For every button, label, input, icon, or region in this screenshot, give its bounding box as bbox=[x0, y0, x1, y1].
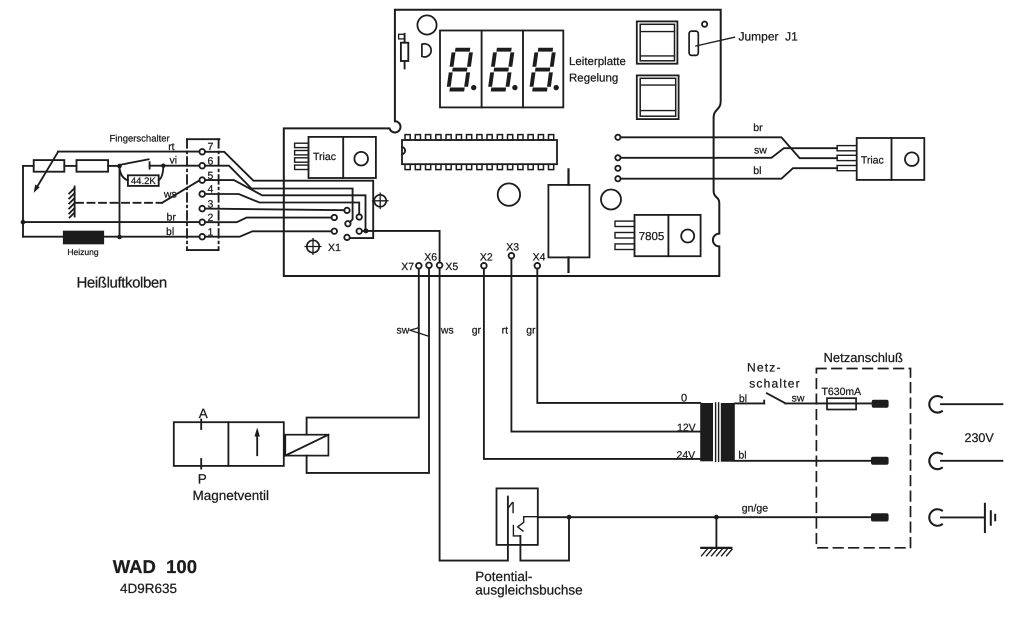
svg-text:gn/ge: gn/ge bbox=[742, 502, 768, 514]
solder pad D bbox=[345, 221, 350, 226]
triac U1 divider bbox=[342, 137, 344, 178]
svg-text:2: 2 bbox=[207, 212, 213, 224]
node vi junction dot bbox=[161, 164, 165, 168]
wire pin 4 to PCB pad C bbox=[205, 194, 359, 214]
svg-text:bl: bl bbox=[739, 393, 747, 405]
triac Q2 lead 1 bbox=[837, 146, 857, 151]
mounting hole top left bbox=[417, 15, 436, 34]
svg-text:7: 7 bbox=[207, 141, 213, 153]
mounting pad crosshair X1 bbox=[305, 239, 321, 255]
svg-text:X7: X7 bbox=[401, 261, 414, 273]
svg-text:Netzanschluß: Netzanschluß bbox=[824, 350, 904, 365]
connector housing bottom edge bbox=[187, 249, 218, 251]
adjustment arrow through sensor bbox=[34, 152, 58, 193]
regulator 7805 mounting hole bbox=[681, 230, 694, 243]
pin X2 bbox=[481, 263, 487, 269]
pin X5 bbox=[437, 263, 443, 269]
connector housing top edge bbox=[187, 138, 219, 140]
wire X5 ws to equipotential socket pin bbox=[440, 268, 508, 560]
wire heater to pin 1 bbox=[103, 236, 199, 238]
svg-text:X4: X4 bbox=[533, 252, 546, 264]
wire node A down to bl line bbox=[119, 166, 121, 237]
PCB Leiterplatte outline bbox=[284, 10, 721, 276]
wire X4 gr to transformer 0 tap bbox=[537, 269, 700, 403]
capacitor C1 body bbox=[548, 185, 589, 258]
regulator 7805 lead 2 bbox=[615, 233, 635, 239]
svg-text:T630mA: T630mA bbox=[822, 386, 862, 398]
wire pin 3 to PCB pad A bbox=[205, 209, 344, 211]
display digit 1 decimal point bbox=[471, 85, 476, 90]
wire rt from sensor to pin 7 bbox=[58, 151, 200, 153]
edge pad sw bbox=[615, 155, 620, 160]
wire pin 5 to solder node bbox=[205, 180, 366, 231]
switch fixed contact bbox=[149, 162, 151, 168]
wire solder node to X5 bbox=[366, 231, 440, 263]
wire gn/ge bbox=[538, 516, 871, 518]
pin X7 bbox=[416, 263, 422, 269]
svg-text:7805: 7805 bbox=[639, 231, 665, 243]
transformer T1 primary winding bbox=[700, 403, 713, 461]
svg-text:sw: sw bbox=[397, 325, 410, 337]
svg-text:gr: gr bbox=[526, 325, 536, 337]
svg-text:bl: bl bbox=[753, 165, 761, 177]
connector pin 5 bbox=[199, 177, 205, 183]
wire sw from pad to triac lead 1 bbox=[621, 148, 838, 158]
display cell dividers bbox=[482, 31, 523, 108]
relay K2 bbox=[637, 75, 679, 119]
svg-text:br: br bbox=[167, 212, 177, 224]
connector pin 1 bbox=[199, 234, 205, 240]
resistor 44.2K body bbox=[128, 175, 159, 186]
svg-text:6: 6 bbox=[207, 155, 213, 167]
wire box2 to node A bbox=[108, 165, 119, 167]
svg-text:bl: bl bbox=[738, 450, 746, 462]
svg-text:230V: 230V bbox=[965, 431, 995, 445]
socket pin hook bbox=[508, 503, 513, 513]
valve port A tick bbox=[200, 420, 202, 430]
wire socket sleeve loop to gn/ge bbox=[520, 517, 569, 560]
valve port P tick bbox=[200, 459, 202, 469]
svg-text:Heißluftkolben: Heißluftkolben bbox=[77, 275, 167, 292]
junction dot gn/ge to earth bbox=[714, 515, 719, 520]
resistor 44.2K right lead bbox=[159, 168, 164, 181]
relay K1 bbox=[637, 21, 678, 63]
wire plug 3 bbox=[941, 516, 983, 518]
pin X6 bbox=[426, 263, 432, 269]
svg-text:ausgleichsbuchse: ausgleichsbuchse bbox=[475, 582, 582, 597]
svg-text:rt: rt bbox=[502, 325, 508, 337]
mounting pad crosshair upper bbox=[373, 193, 388, 208]
svg-text:Netz-: Netz- bbox=[747, 360, 782, 374]
wire pin 6 to PCB pad D bbox=[205, 166, 353, 223]
wire br to pin 2 bbox=[23, 221, 199, 223]
connector pin 2 bbox=[199, 219, 205, 225]
mounting hole center bbox=[498, 183, 520, 205]
svg-text:44.2K: 44.2K bbox=[131, 176, 156, 187]
svg-text:0: 0 bbox=[681, 392, 687, 404]
chassis sensor bar bbox=[69, 187, 74, 218]
wire bl from pad to triac lead 3 bbox=[621, 168, 838, 179]
cable lug 1 bbox=[872, 400, 889, 408]
socket contact chevron bbox=[518, 517, 538, 531]
svg-text:12V: 12V bbox=[677, 422, 696, 434]
triac U1 mounting hole bbox=[354, 152, 368, 166]
switch Fingerschalter arm bbox=[121, 159, 148, 164]
display digit 3 bbox=[531, 50, 554, 90]
cable lug 2 bbox=[871, 457, 889, 465]
7-segment display module frame bbox=[440, 31, 563, 108]
equipotential socket box bbox=[497, 488, 538, 545]
wire left rail to box1 bbox=[23, 165, 34, 167]
left rail wire bbox=[22, 166, 24, 237]
transformer T1 core lines bbox=[716, 403, 719, 461]
edge pad bl bbox=[615, 176, 620, 181]
earth drop wire bbox=[715, 517, 717, 547]
svg-text:Leiterplatte: Leiterplatte bbox=[569, 56, 626, 68]
connector housing left dashed line bbox=[186, 139, 188, 250]
D-shaped pad bbox=[422, 44, 431, 57]
regulator 7805 lead 3 bbox=[615, 244, 635, 250]
triac U1 lead 1 bbox=[295, 143, 309, 147]
jumper J1 callout line bbox=[696, 37, 735, 46]
display digit 2 bbox=[490, 50, 513, 90]
svg-text:Magnetventil: Magnetventil bbox=[193, 488, 270, 503]
wire br from pad to triac lead 2 bbox=[621, 137, 838, 158]
triac Q2 divider bbox=[891, 138, 893, 180]
wire X3 rt to transformer 12V tap bbox=[511, 259, 700, 432]
solenoid valve divider bbox=[227, 422, 229, 466]
resistor 44.2K left lead bbox=[120, 168, 128, 181]
svg-text:P: P bbox=[198, 471, 207, 486]
svg-text:Regelung: Regelung bbox=[569, 73, 618, 85]
svg-text:Heizung: Heizung bbox=[67, 247, 98, 257]
edge pad spare bbox=[615, 166, 620, 171]
edge pad br bbox=[615, 135, 620, 140]
connector pin 4 bbox=[199, 191, 205, 197]
switch S1 Netzschalter arm bbox=[767, 393, 785, 403]
svg-text:sw: sw bbox=[754, 144, 767, 156]
display digit 2 decimal point bbox=[512, 85, 517, 90]
cable lug 3 bbox=[871, 513, 889, 521]
solder pad A bbox=[344, 208, 349, 213]
connector pin 3 bbox=[199, 206, 205, 212]
regulator 7805 body bbox=[635, 215, 701, 256]
wire switch to fuse to lug bbox=[785, 402, 871, 404]
wire plug 1 bbox=[941, 403, 1002, 405]
wire X6 to valve coil bottom bbox=[307, 268, 429, 473]
svg-text:A: A bbox=[199, 406, 208, 421]
svg-text:vi: vi bbox=[170, 155, 178, 167]
regulator 7805 divider bbox=[667, 215, 669, 256]
wire X7 to valve coil top bbox=[307, 269, 419, 435]
junction dot on bl line bbox=[117, 235, 122, 240]
test point hole near jumper bbox=[702, 22, 707, 27]
triac Q2 body bbox=[857, 138, 925, 180]
transformer T1 secondary winding bbox=[721, 403, 735, 462]
solenoid valve body bbox=[174, 422, 284, 466]
pin X3 bbox=[509, 253, 515, 259]
svg-text:gr: gr bbox=[472, 325, 482, 337]
mounting hole right bbox=[601, 190, 621, 210]
junction dot br on left rail bbox=[21, 220, 26, 225]
svg-text:WAD 100: WAD 100 bbox=[113, 556, 197, 577]
IC U2 top pins bbox=[405, 135, 554, 140]
junction dot gn/ge at socket bbox=[567, 515, 572, 520]
IC U2 body bbox=[402, 140, 557, 164]
svg-text:5: 5 bbox=[207, 170, 213, 182]
triac U1 lead 2 bbox=[295, 151, 309, 155]
triac U1 lead 3 bbox=[295, 158, 309, 162]
wire X2 gr to transformer 24V tap bbox=[484, 269, 700, 459]
valve flow arrow bbox=[255, 428, 260, 456]
connector housing right dashed line bbox=[218, 139, 220, 250]
wire secondary bottom to lug 2 bbox=[735, 460, 871, 462]
plug contact 3 earth bbox=[929, 509, 942, 526]
sw label arrow bbox=[410, 328, 429, 336]
svg-text:X5: X5 bbox=[445, 261, 458, 273]
svg-text:ws: ws bbox=[163, 189, 177, 201]
connector pin 6 bbox=[199, 163, 205, 169]
triac Q2 lead 2 bbox=[837, 155, 857, 160]
svg-text:Fingerschalter: Fingerschalter bbox=[110, 134, 170, 145]
svg-text:4D9R635: 4D9R635 bbox=[120, 581, 177, 596]
switch S1 left contact hook bbox=[763, 401, 765, 404]
svg-text:br: br bbox=[753, 122, 763, 134]
node A junction dot bbox=[117, 164, 122, 169]
mains connector dashed box Netzanschluss bbox=[816, 369, 910, 548]
svg-text:4: 4 bbox=[207, 184, 213, 196]
stub pad F to node bbox=[362, 230, 364, 232]
svg-text:X2: X2 bbox=[480, 252, 493, 264]
dashed ws sense wire bbox=[76, 202, 162, 204]
triac U1 body on PCB bbox=[309, 137, 376, 178]
svg-text:X1: X1 bbox=[328, 242, 341, 254]
regulator 7805 lead 1 bbox=[615, 221, 635, 226]
ws diagonal wire to pin 5 bbox=[162, 180, 199, 202]
ground symbol bbox=[701, 548, 732, 556]
resistor R1 vertical bbox=[399, 34, 409, 69]
connector pin 7 bbox=[199, 149, 205, 155]
plug contact 2 bbox=[929, 453, 942, 470]
solder pad F bbox=[357, 229, 362, 234]
solder pad B bbox=[332, 215, 337, 220]
sensor element (box 2) bbox=[77, 160, 109, 172]
plug contact 1 bbox=[929, 396, 942, 412]
wire box1 to box2 bbox=[64, 165, 76, 167]
capacitor C1 leads bbox=[567, 169, 569, 272]
solder pad C bbox=[357, 214, 362, 219]
display digit 1 bbox=[448, 50, 471, 90]
IC U2 bottom pins bbox=[405, 164, 554, 169]
wire plug 2 bbox=[941, 460, 1002, 462]
svg-text:24V: 24V bbox=[677, 449, 696, 461]
svg-text:rt: rt bbox=[168, 141, 174, 153]
svg-text:X6: X6 bbox=[424, 252, 437, 264]
wire node vi to pin 6 bbox=[163, 165, 199, 167]
svg-text:Jumper J1: Jumper J1 bbox=[739, 30, 799, 44]
solder pad E bbox=[332, 229, 337, 234]
triac U1 lead 4 bbox=[295, 165, 309, 169]
pin X4 bbox=[535, 263, 541, 269]
wire pin 1 to PCB pad E bbox=[205, 231, 332, 236]
wire pin 2 to PCB pad B bbox=[205, 218, 332, 223]
socket sleeve contact bbox=[513, 525, 520, 536]
solder pad G bbox=[344, 235, 349, 240]
wire secondary top to switch contact bbox=[735, 402, 764, 404]
triac Q2 mounting hole bbox=[905, 152, 919, 166]
svg-text:Triac: Triac bbox=[861, 154, 884, 166]
svg-text:3: 3 bbox=[207, 198, 213, 210]
fuse F1 T630mA bbox=[827, 398, 856, 409]
protective earth symbol bbox=[985, 504, 995, 532]
temperature sensor body (box 1) bbox=[34, 160, 65, 172]
wire switch to node vi bbox=[150, 165, 164, 167]
triac Q2 lead 3 bbox=[837, 166, 857, 171]
svg-text:X3: X3 bbox=[506, 241, 519, 253]
wire bl rail to heater bbox=[23, 236, 64, 238]
solenoid coil bbox=[285, 435, 328, 456]
svg-text:schalter: schalter bbox=[749, 376, 801, 390]
jumper J1 bbox=[689, 31, 698, 55]
svg-text:ws: ws bbox=[440, 325, 454, 337]
heater Heizung bbox=[64, 232, 103, 244]
IC U2 notch bbox=[402, 147, 405, 154]
solder node dot bbox=[363, 228, 368, 233]
svg-text:sw: sw bbox=[792, 393, 805, 405]
svg-text:1: 1 bbox=[207, 226, 213, 238]
svg-text:bl: bl bbox=[166, 226, 174, 238]
wire pin 7 to PCB pad G bbox=[205, 152, 373, 238]
display digit 3 decimal point bbox=[554, 85, 559, 90]
svg-text:Triac: Triac bbox=[313, 151, 336, 163]
